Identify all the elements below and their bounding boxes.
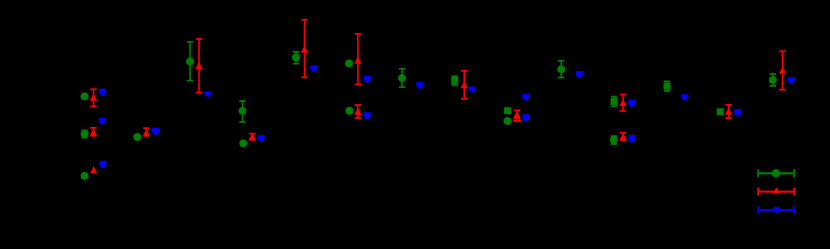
red rE2 xyxy=(354,104,361,119)
green gL xyxy=(717,108,724,115)
green gJ2 xyxy=(610,135,618,145)
blue bC2 xyxy=(258,135,265,141)
legend entry blue xyxy=(757,206,795,214)
red rE xyxy=(354,33,361,85)
blue bJ xyxy=(628,100,635,107)
blue bI xyxy=(576,71,583,78)
red rA3 xyxy=(90,166,97,173)
red rG xyxy=(461,70,468,100)
red rA xyxy=(90,88,97,107)
legend entry red xyxy=(757,187,795,195)
blue bL xyxy=(734,109,741,116)
blue bJ2 xyxy=(629,135,636,143)
red rJ xyxy=(619,94,626,112)
red rA2 xyxy=(90,127,97,137)
blue bE xyxy=(364,76,371,83)
red rH xyxy=(513,110,520,120)
red rB2 xyxy=(143,127,150,136)
blue bF xyxy=(416,82,423,89)
blue bA2 xyxy=(99,118,106,125)
green gM xyxy=(769,73,777,87)
green gB2 xyxy=(133,133,141,141)
blue bH xyxy=(522,94,529,101)
blue bK xyxy=(681,94,688,100)
green gI xyxy=(557,60,565,78)
green gA3 xyxy=(81,172,89,180)
green gF xyxy=(398,68,406,88)
blue bA xyxy=(99,89,106,96)
green gB xyxy=(186,41,194,81)
blue bG xyxy=(469,87,476,93)
green gE xyxy=(345,59,353,67)
red rB xyxy=(195,38,202,93)
green gD xyxy=(292,51,300,65)
green gC2 xyxy=(239,139,247,147)
blue bE2 xyxy=(364,112,371,119)
red rL xyxy=(725,104,732,119)
green gC xyxy=(239,100,247,123)
legend entry green xyxy=(757,169,795,177)
red rD xyxy=(301,19,308,78)
blue bB xyxy=(204,92,211,97)
blue bB2 xyxy=(152,128,159,136)
red rJ2 xyxy=(620,132,627,141)
green gG xyxy=(451,75,458,85)
green gE2 xyxy=(345,107,353,115)
blue bA3 xyxy=(99,161,106,168)
red rC2 xyxy=(249,133,256,141)
green gA2 xyxy=(81,130,89,139)
green gJ xyxy=(611,96,618,108)
blue bM xyxy=(788,77,795,84)
green gH xyxy=(504,107,511,114)
red rM xyxy=(779,50,786,90)
blue bH2 xyxy=(522,114,529,122)
green gK xyxy=(664,81,671,92)
green gA xyxy=(81,92,89,100)
red rH2 xyxy=(513,120,521,122)
blue bD xyxy=(310,66,317,73)
green gH2 xyxy=(504,117,512,125)
